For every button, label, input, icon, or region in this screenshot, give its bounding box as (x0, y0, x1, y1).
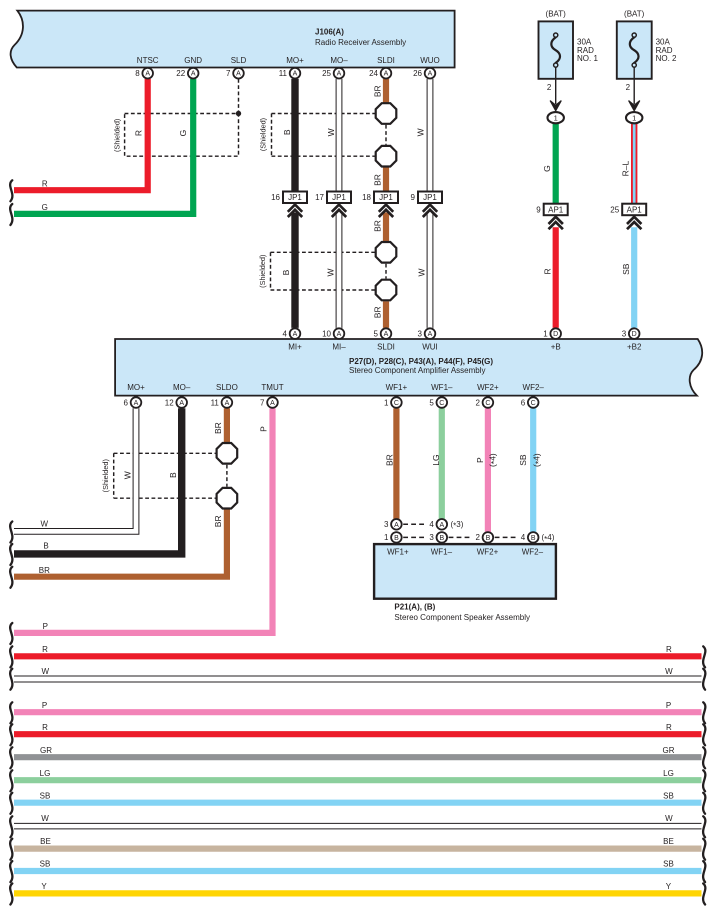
svg-text:R: R (542, 268, 552, 274)
svg-text:+B: +B (551, 343, 561, 352)
svg-text:WF2+: WF2+ (477, 548, 499, 557)
svg-text:SB: SB (663, 860, 674, 869)
svg-text:A: A (384, 71, 389, 78)
svg-text:8: 8 (135, 69, 140, 78)
svg-text:WF1–: WF1– (431, 548, 453, 557)
svg-text:JP1: JP1 (423, 193, 437, 202)
svg-text:MI–: MI– (332, 343, 346, 352)
svg-text:C: C (531, 400, 536, 407)
svg-text:A: A (134, 400, 139, 407)
svg-text:Radio Receiver Assembly: Radio Receiver Assembly (315, 38, 406, 47)
svg-text:AP1: AP1 (627, 205, 643, 214)
svg-text:AP1: AP1 (548, 205, 564, 214)
svg-text:LG: LG (431, 454, 441, 465)
svg-text:A: A (270, 400, 275, 407)
svg-text:P21(A), (B): P21(A), (B) (394, 603, 435, 612)
svg-text:26: 26 (413, 69, 422, 78)
svg-text:JP1: JP1 (288, 193, 302, 202)
svg-text:WF1+: WF1+ (387, 548, 409, 557)
svg-text:A: A (179, 400, 184, 407)
svg-text:A: A (428, 71, 433, 78)
svg-text:GND: GND (184, 56, 202, 65)
svg-text:WF1+: WF1+ (386, 383, 408, 392)
svg-text:MO+: MO+ (127, 383, 145, 392)
svg-text:6: 6 (124, 398, 129, 407)
svg-text:11: 11 (211, 398, 220, 407)
svg-text:6: 6 (521, 398, 526, 407)
svg-text:SB: SB (518, 454, 528, 466)
svg-text:BE: BE (663, 837, 674, 846)
svg-text:7: 7 (260, 398, 265, 407)
svg-text:SLD: SLD (231, 56, 247, 65)
svg-text:R: R (42, 723, 48, 732)
svg-text:LG: LG (663, 769, 674, 778)
svg-text:25: 25 (610, 205, 619, 214)
svg-text:SB: SB (40, 860, 51, 869)
svg-text:(Shielded): (Shielded) (112, 119, 121, 152)
svg-text:A: A (236, 71, 241, 78)
svg-text:P: P (42, 701, 47, 710)
svg-text:SB: SB (663, 791, 674, 800)
svg-text:3: 3 (429, 533, 434, 542)
svg-text:(Shielded): (Shielded) (258, 255, 267, 288)
svg-text:2: 2 (475, 533, 480, 542)
svg-text:Stereo Component Speaker Assem: Stereo Component Speaker Assembly (394, 613, 530, 622)
svg-text:2: 2 (475, 398, 480, 407)
svg-text:24: 24 (369, 69, 378, 78)
svg-text:WF2–: WF2– (522, 548, 544, 557)
svg-text:A: A (225, 400, 230, 407)
svg-text:4: 4 (429, 520, 434, 529)
svg-text:GR: GR (40, 746, 52, 755)
svg-text:9: 9 (536, 205, 541, 214)
svg-text:W: W (42, 667, 50, 676)
svg-text:G: G (542, 165, 552, 172)
svg-text:18: 18 (362, 193, 371, 202)
svg-text:A: A (439, 522, 444, 529)
svg-text:1: 1 (543, 329, 548, 338)
svg-text:W: W (326, 128, 336, 136)
svg-text:BR: BR (213, 515, 223, 527)
svg-text:(BAT): (BAT) (546, 10, 567, 19)
svg-text:D: D (553, 331, 558, 338)
svg-text:4: 4 (521, 533, 526, 542)
svg-text:WUO: WUO (420, 56, 440, 65)
svg-text:W: W (122, 471, 132, 479)
svg-text:NO. 1: NO. 1 (577, 54, 598, 63)
svg-text:+B2: +B2 (627, 343, 642, 352)
svg-text:7: 7 (226, 69, 231, 78)
svg-text:9: 9 (411, 193, 416, 202)
svg-text:MO–: MO– (173, 383, 191, 392)
svg-text:P: P (43, 622, 48, 631)
svg-text:D: D (632, 331, 637, 338)
svg-text:A: A (384, 331, 389, 338)
svg-text:R: R (666, 645, 672, 654)
svg-text:NO. 2: NO. 2 (656, 54, 677, 63)
svg-text:R: R (666, 723, 672, 732)
svg-text:GR: GR (663, 746, 675, 755)
svg-text:WF2+: WF2+ (477, 383, 499, 392)
svg-text:5: 5 (429, 398, 434, 407)
svg-text:B: B (486, 535, 491, 542)
svg-text:W: W (41, 814, 49, 823)
svg-text:BR: BR (213, 422, 223, 434)
svg-text:3: 3 (418, 329, 423, 338)
svg-text:1: 1 (384, 398, 389, 407)
svg-text:Stereo Component Amplifier Ass: Stereo Component Amplifier Assembly (349, 366, 486, 375)
svg-text:(BAT): (BAT) (624, 10, 645, 19)
svg-text:B: B (281, 269, 291, 275)
svg-text:JP1: JP1 (379, 193, 393, 202)
svg-text:R–L: R–L (621, 161, 631, 177)
svg-text:P27(D), P28(C), P43(A), P44(F): P27(D), P28(C), P43(A), P44(F), P45(G) (349, 357, 493, 366)
svg-text:25: 25 (322, 69, 331, 78)
svg-text:P: P (666, 701, 671, 710)
svg-text:B: B (43, 542, 48, 551)
svg-text:W: W (665, 667, 673, 676)
svg-text:JP1: JP1 (332, 193, 346, 202)
svg-text:NTSC: NTSC (137, 56, 159, 65)
svg-text:22: 22 (176, 69, 185, 78)
svg-text:16: 16 (271, 193, 280, 202)
svg-text:SLDI: SLDI (377, 56, 395, 65)
svg-text:MI+: MI+ (288, 343, 302, 352)
svg-text:C: C (394, 400, 399, 407)
svg-text:C: C (485, 400, 490, 407)
svg-text:B: B (394, 535, 399, 542)
svg-text:Y: Y (666, 882, 672, 891)
svg-text:A: A (428, 331, 433, 338)
svg-text:A: A (337, 331, 342, 338)
svg-text:(*4): (*4) (532, 453, 544, 467)
svg-text:R: R (42, 179, 48, 188)
svg-text:B: B (439, 535, 444, 542)
svg-text:B: B (531, 535, 536, 542)
svg-text:BR: BR (372, 174, 382, 186)
svg-text:10: 10 (322, 329, 331, 338)
svg-text:BR: BR (384, 454, 394, 466)
svg-text:WUI: WUI (422, 343, 438, 352)
svg-text:1: 1 (384, 533, 389, 542)
svg-text:11: 11 (279, 69, 288, 78)
svg-text:W: W (41, 520, 49, 529)
svg-text:1: 1 (632, 113, 636, 122)
svg-text:W: W (325, 268, 335, 276)
svg-text:SLDO: SLDO (216, 383, 238, 392)
svg-text:B: B (282, 129, 292, 135)
svg-text:P: P (259, 426, 269, 432)
svg-text:2: 2 (547, 83, 552, 92)
svg-text:BR: BR (372, 306, 382, 318)
svg-text:5: 5 (374, 329, 379, 338)
svg-text:A: A (337, 71, 342, 78)
svg-text:BR: BR (372, 85, 382, 97)
svg-text:R: R (42, 645, 48, 654)
svg-text:BE: BE (40, 837, 51, 846)
svg-text:Y: Y (41, 882, 47, 891)
svg-text:3: 3 (384, 520, 389, 529)
svg-text:W: W (665, 814, 673, 823)
svg-text:A: A (145, 71, 150, 78)
svg-text:MO–: MO– (330, 56, 348, 65)
svg-text:WF2–: WF2– (523, 383, 545, 392)
svg-text:WF1–: WF1– (431, 383, 453, 392)
svg-text:A: A (191, 71, 196, 78)
svg-text:SB: SB (621, 263, 631, 275)
svg-text:MO+: MO+ (286, 56, 304, 65)
svg-text:SB: SB (40, 791, 51, 800)
svg-text:B: B (168, 472, 178, 478)
svg-text:4: 4 (283, 329, 288, 338)
svg-text:3: 3 (622, 329, 627, 338)
svg-text:SLDI: SLDI (377, 343, 395, 352)
svg-text:2: 2 (626, 83, 631, 92)
svg-text:(*4): (*4) (488, 453, 500, 467)
svg-text:C: C (439, 400, 444, 407)
svg-text:W: W (415, 128, 425, 136)
svg-text:12: 12 (165, 398, 174, 407)
svg-text:A: A (293, 331, 298, 338)
svg-text:17: 17 (315, 193, 324, 202)
svg-text:P: P (475, 457, 485, 463)
svg-text:G: G (178, 130, 188, 137)
svg-text:J106(A): J106(A) (315, 28, 344, 37)
svg-text:A: A (293, 71, 298, 78)
svg-text:BR: BR (39, 566, 50, 575)
svg-text:TMUT: TMUT (261, 383, 283, 392)
svg-text:(Shielded): (Shielded) (258, 118, 267, 151)
svg-text:BR: BR (372, 220, 382, 232)
svg-text:W: W (416, 268, 426, 276)
svg-text:G: G (42, 203, 48, 212)
svg-text:A: A (394, 522, 399, 529)
svg-text:R: R (133, 130, 143, 136)
svg-text:(Shielded): (Shielded) (101, 459, 110, 492)
svg-text:LG: LG (40, 769, 51, 778)
svg-text:1: 1 (554, 113, 558, 122)
